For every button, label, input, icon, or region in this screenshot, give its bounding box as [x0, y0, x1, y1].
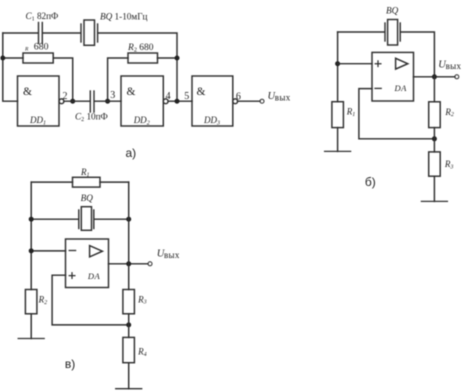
label Uвых b — [438, 60, 461, 72]
wire output b — [414, 76, 455, 78]
wire DD3 out to terminal — [238, 100, 260, 102]
wire R3 to ground b — [433, 176, 435, 201]
wire plus feedback v — [52, 275, 129, 325]
wire top left to C1 — [3, 32, 38, 34]
svg-text:DD3: DD3 — [203, 115, 220, 126]
resistor R2 v — [25, 290, 37, 314]
crystal BQ b — [385, 20, 400, 46]
wire minus input v — [31, 250, 65, 252]
svg-text:R1: R1 — [80, 167, 90, 178]
crystal BQ v — [79, 207, 94, 231]
svg-text:R2 680: R2 680 — [127, 43, 154, 54]
wire output v — [109, 263, 149, 265]
svg-text:&: & — [197, 86, 206, 98]
svg-text:5: 5 — [184, 91, 189, 102]
junction — [175, 99, 180, 104]
wire minus feedback b — [359, 89, 435, 139]
wire R2 left to node3 — [108, 58, 128, 101]
wire R1 to ground b — [337, 128, 339, 152]
op-amp DA b — [372, 52, 414, 101]
svg-text:BQ: BQ — [81, 193, 94, 203]
wire R1 to node2 — [53, 58, 72, 101]
capacitor C1 — [39, 23, 43, 44]
resistor R2 b — [429, 102, 441, 128]
label Uвых a — [268, 91, 291, 103]
wire BQ to right rail b — [401, 32, 434, 77]
svg-text:вых: вых — [446, 61, 462, 71]
resistor R1 v — [73, 177, 101, 187]
op-amp DA v — [66, 239, 109, 288]
svg-text:680: 680 — [34, 42, 49, 53]
junction BQ right v — [126, 217, 131, 222]
svg-text:вых: вых — [164, 250, 180, 260]
output terminal v — [148, 262, 152, 266]
ground v left — [18, 338, 44, 340]
junction BQ left v — [29, 217, 34, 222]
junction feedback v — [126, 322, 131, 327]
resistor R3 b — [429, 152, 441, 176]
NAND gate DD2 — [121, 76, 168, 126]
wire BQ right v — [95, 218, 129, 220]
resistor R2 680 — [128, 53, 158, 63]
wire rail to R2 b — [433, 77, 435, 102]
junction feedback b — [432, 136, 437, 141]
junction — [0, 56, 5, 61]
svg-text:BQ 1-10мГц: BQ 1-10мГц — [100, 12, 148, 22]
junction output b — [432, 74, 437, 79]
NAND gate DD1 — [18, 76, 64, 126]
junction output v — [126, 261, 131, 266]
crystal BQ — [81, 20, 98, 45]
output terminal a — [260, 99, 264, 103]
resistor R1 b — [332, 102, 344, 128]
ground v right — [116, 388, 142, 390]
wire R4 to ground v — [128, 363, 130, 389]
capacitor C2 — [90, 91, 94, 112]
NAND gate DD3 — [192, 76, 238, 126]
wire BQ left v — [31, 218, 78, 220]
resistor R1 680 — [23, 53, 53, 63]
svg-text:4: 4 — [166, 91, 171, 102]
svg-text:R2: R2 — [444, 107, 454, 118]
wire DD2 out to DD3 — [168, 100, 192, 102]
svg-text:DD2: DD2 — [133, 115, 150, 126]
output terminal b — [455, 75, 459, 79]
svg-text:DA: DA — [87, 271, 101, 281]
junction node3 — [105, 99, 110, 104]
wire top left circuit v — [31, 181, 72, 183]
wire right rail v — [128, 182, 130, 289]
svg-text:BQ: BQ — [386, 6, 399, 16]
wire left rail v — [30, 182, 32, 289]
ground b right — [421, 200, 447, 202]
wire junction to R4 v — [128, 325, 130, 338]
wire R2 to ground v — [30, 314, 32, 339]
wire BQ to right rail — [98, 33, 177, 101]
svg-text:DA: DA — [394, 83, 408, 93]
wire DD1 out to C2 — [64, 100, 90, 102]
svg-text:R3: R3 — [444, 159, 454, 170]
svg-text:R4: R4 — [137, 347, 147, 358]
resistor R4 v — [123, 337, 134, 362]
svg-text:R3: R3 — [137, 294, 147, 305]
wire top left circuit b — [338, 31, 385, 33]
junction node2 — [70, 99, 75, 104]
svg-text:R1: R1 — [346, 107, 356, 118]
svg-text:DD1: DD1 — [29, 115, 46, 126]
wire R1 to right rail v — [100, 181, 129, 183]
svg-text:&: & — [127, 86, 136, 98]
wire C2 to DD2 — [95, 100, 121, 102]
svg-text:б): б) — [365, 175, 376, 189]
svg-text:C1 82пФ: C1 82пФ — [26, 11, 59, 23]
wire R3 top b — [433, 139, 435, 152]
wire left rail circuit a — [3, 33, 18, 101]
wire C1 to BQ — [43, 32, 80, 34]
junction — [175, 56, 180, 61]
wire R2 right to rail — [158, 57, 178, 59]
svg-text:&: & — [23, 86, 32, 98]
svg-text:а): а) — [126, 146, 137, 160]
resistor R3 v — [123, 290, 134, 314]
label Uвых v — [157, 248, 180, 260]
svg-text:R2: R2 — [38, 295, 48, 306]
wire R2 to feedback junction b — [433, 128, 435, 139]
ground b left — [325, 150, 351, 152]
label R1 680 — [24, 42, 49, 53]
svg-text:2: 2 — [63, 91, 68, 102]
svg-text:в): в) — [65, 357, 75, 371]
svg-text:R: R — [24, 47, 29, 53]
junction minus input v — [29, 248, 34, 253]
wire plus input b — [338, 63, 372, 65]
wire left rail b — [337, 32, 339, 102]
wire rail to R1 — [3, 57, 23, 59]
svg-text:вых: вых — [275, 93, 291, 103]
svg-text:3: 3 — [110, 90, 115, 101]
wire R3 to junction v — [128, 314, 130, 325]
svg-text:C2 10пФ: C2 10пФ — [75, 112, 108, 124]
junction plus input b — [335, 61, 340, 66]
